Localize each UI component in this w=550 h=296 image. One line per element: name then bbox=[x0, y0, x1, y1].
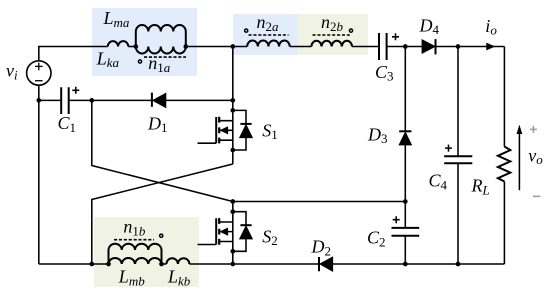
diode D2 bbox=[320, 257, 333, 271]
winding n2a bbox=[247, 40, 289, 46]
polarity dot n1b bbox=[160, 234, 163, 237]
polarity dot n2a bbox=[245, 29, 248, 32]
junction node S2 drain bbox=[230, 199, 235, 204]
dashed polarity line n2b bbox=[313, 34, 351, 36]
current arrow io bbox=[486, 43, 495, 51]
plus sign vo bbox=[530, 126, 537, 133]
junction node S2 drain split bbox=[230, 209, 235, 214]
wire Lkb to D2 bbox=[189, 263, 318, 265]
junction node S2 source join bbox=[230, 249, 235, 254]
body diode S2 bbox=[233, 212, 246, 252]
capacitor C3 bbox=[379, 33, 387, 60]
highlight box winding n2a bbox=[233, 14, 298, 55]
highlight box transformer primary b (n1b/Lmb/Lkb) bbox=[94, 217, 199, 287]
junction node A left bbox=[133, 44, 138, 49]
junction node D1-S1 bbox=[230, 98, 235, 103]
transistor S1 bbox=[198, 100, 233, 164]
body diode S1 bbox=[233, 110, 246, 150]
wire cross upper-right to lower-left bbox=[92, 164, 233, 264]
wire D2 to bottom-right corner bbox=[333, 263, 505, 265]
junction node C3-D4-D3 bbox=[403, 44, 408, 49]
junction node B right bbox=[159, 262, 164, 267]
inductor Lma bbox=[136, 25, 186, 46]
voltage source vi bbox=[27, 61, 51, 85]
junction node S2 bottom rail bbox=[230, 262, 235, 267]
wire D4 to top-right corner bbox=[436, 46, 505, 48]
winding n1a bbox=[136, 47, 186, 54]
junction node top rail S1 bbox=[230, 44, 235, 49]
polarity dot n1a bbox=[138, 60, 141, 63]
winding n1b bbox=[109, 244, 162, 264]
wire n2b to C3 bbox=[352, 46, 379, 48]
inductor Lkb bbox=[166, 258, 189, 264]
junction node C4 bottom rail bbox=[456, 262, 461, 267]
wire C4 to bottom rail bbox=[457, 163, 459, 264]
diode D1 bbox=[153, 93, 166, 107]
wire D1 to S1 drain node bbox=[166, 99, 233, 101]
diode D3 bbox=[399, 132, 411, 145]
junction node S1 source join bbox=[230, 148, 235, 153]
junction node C1-cross bbox=[89, 98, 94, 103]
polarity dot n2b bbox=[349, 29, 352, 32]
wire node A to n2a bbox=[186, 46, 247, 48]
dashed polarity line n1a bbox=[144, 56, 186, 58]
junction node A right bbox=[183, 44, 188, 49]
dashed polarity line n2a bbox=[249, 34, 289, 36]
minus sign vo bbox=[533, 195, 541, 197]
highlight box transformer primary a (Lma/Lka/n1a) bbox=[92, 8, 197, 76]
wire C3 node down to D3 bbox=[404, 47, 406, 132]
wire D4 node down to C4 bbox=[457, 47, 459, 157]
inductor Lmb bbox=[109, 258, 162, 264]
junction node D3-C2 bbox=[403, 199, 408, 204]
capacitor C4 bbox=[444, 156, 472, 163]
wire right rail upper bbox=[503, 47, 505, 147]
resistor RL bbox=[498, 147, 510, 182]
diode D4 bbox=[422, 40, 435, 53]
wire top rail node down to S1 bbox=[232, 47, 234, 101]
junction node vi-C1 bbox=[36, 98, 41, 103]
wire top rail left (vi to Lka) bbox=[39, 47, 108, 61]
inductor Lka bbox=[108, 41, 129, 46]
wire C1 to D1 bbox=[69, 99, 152, 101]
wire cross X upper-left to lower-right bbox=[92, 100, 233, 201]
plus sign C2 bbox=[393, 216, 400, 223]
junction node S1 drain split bbox=[230, 108, 235, 113]
wire D3 to C2 node bbox=[404, 145, 406, 228]
highlight box winding n2b bbox=[298, 14, 368, 55]
wire n2a to n2b bbox=[290, 46, 312, 48]
wire Lmb to Lkb bbox=[162, 263, 167, 265]
dashed polarity line n1b bbox=[114, 239, 154, 241]
winding n2b bbox=[311, 41, 352, 47]
capacitor C2 bbox=[392, 228, 420, 236]
wire C2 to bottom rail bbox=[404, 236, 406, 264]
wire bottom rail left bbox=[39, 263, 109, 265]
junction node B left bbox=[106, 262, 111, 267]
wire S2 node to C2 node bbox=[233, 201, 405, 203]
wire vi bottom to node bbox=[38, 85, 40, 100]
plus sign C3 bbox=[392, 33, 399, 40]
junction node cross bottom rail bbox=[89, 262, 94, 267]
capacitor C1 bbox=[61, 87, 68, 114]
junction node D4-C4 bbox=[456, 44, 461, 49]
wire C3 to D4 bbox=[387, 46, 423, 48]
wire Lka to node A bbox=[128, 46, 136, 48]
wire right rail lower bbox=[503, 182, 505, 265]
junction node C2 bottom rail bbox=[403, 262, 408, 267]
wire node to C1 bbox=[39, 99, 61, 101]
plus sign C4 bbox=[445, 145, 452, 152]
wire left rail bbox=[38, 100, 40, 264]
transistor S2 bbox=[198, 202, 233, 265]
voltage arrow vo bbox=[518, 133, 520, 190]
plus sign C1 bbox=[72, 87, 79, 94]
